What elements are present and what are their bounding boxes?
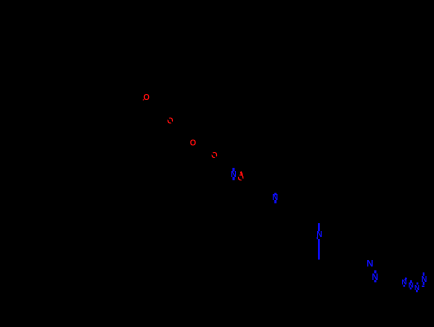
svg-text:N: N <box>317 230 323 239</box>
svg-text:N: N <box>366 259 373 270</box>
svg-text:O: O <box>190 138 196 147</box>
svg-text:O: O <box>143 93 149 102</box>
